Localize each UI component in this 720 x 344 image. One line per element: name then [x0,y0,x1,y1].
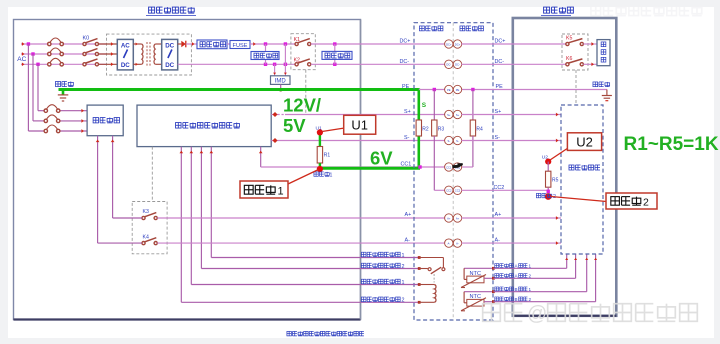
label lock position feedback 1 (dianzisuo weizhi fankui 1) [361,252,404,259]
svg-text:1: 1 [402,253,405,259]
svg-text:1: 1 [529,263,532,268]
node lock row 1 [418,256,421,259]
wire K4 left lead [98,242,142,244]
DC/DC converter box [162,39,178,70]
diode D1 [178,41,197,48]
vehicle connector dashed box [414,23,493,320]
wire to FUSE [227,43,230,45]
node U1 label [316,126,322,132]
wire DC- socket to K6 [462,63,568,65]
title: off-board charger [146,7,196,15]
switch K0 pole 2 [83,49,99,56]
svg-text:CC2: CC2 [446,189,452,193]
node DC- voltmeter tap [333,63,336,66]
wire PE socket to chassis [462,89,607,91]
wire DC+ bus FUSE to K1 [250,42,297,46]
svg-text:R2: R2 [422,127,429,133]
node NTC A pin1 [492,267,495,270]
svg-text:6V: 6V [370,148,393,169]
relay K2 label [294,57,300,63]
FUSE box [230,41,250,50]
wire S+ (12V/5V) controller to plug [271,112,445,117]
thermistor NTC B [461,292,493,311]
wire aux power outputs down [96,136,115,243]
transformer T1 [133,42,161,66]
dashed control link K1K2 to controller [305,70,307,113]
svg-text:2: 2 [529,273,532,278]
svg-text:DC: DC [121,62,130,69]
wires controller bottom drops [179,147,213,303]
svg-text:S+: S+ [404,109,411,115]
relay K1/K2 dashed box [291,34,315,70]
svg-text:B: B [515,287,518,292]
pin pair CC2 [445,186,462,194]
node U1 measurement dot [317,129,323,135]
node NTC B pin1 [492,290,495,293]
node CC1 green junction [418,165,421,168]
resistor R5 [546,171,559,187]
node PE R4 tap [471,88,474,91]
left pin labels DC+ DC- PE S+ S- CC1 A+ A- [400,39,412,244]
callout U2 box [550,133,602,160]
wire taps from AC to aux power [28,44,87,133]
relay K3/K4 dashed box [132,202,167,254]
pin pair PE [445,85,462,93]
svg-text:A-: A- [447,241,450,245]
AC source label [17,56,26,63]
node DC+ IMD tap [284,42,287,45]
label 5V green [283,115,306,136]
svg-text:S-: S- [447,139,450,143]
svg-text:AC: AC [17,56,26,63]
pin pair DC+ [445,40,462,48]
relay K6 label [566,56,572,62]
title: electric vehicle [541,7,573,15]
svg-text:A+: A+ [495,212,502,218]
wires K0 to AC/DC [99,42,118,66]
svg-text:A+: A+ [447,216,451,220]
pin pair A+ [445,214,462,222]
AC input arrows [22,42,25,66]
svg-text:R4: R4 [476,127,483,133]
svg-text:NTC: NTC [470,294,482,300]
pin pair A- [445,239,462,247]
svg-text:S-: S- [456,139,459,143]
node lock row 3 [418,283,421,286]
dashed control link K5K6 to vehicle controller [575,70,577,105]
wire green R1 to detection point 1 [319,163,321,168]
watermark zhihu bottom right [483,303,698,325]
svg-text:A-: A- [456,241,459,245]
svg-text:1: 1 [330,173,333,179]
label 6V green [370,148,393,169]
current measurement box (dianliu celiang) [197,40,227,49]
chassis ground label (cheshen di) [593,82,610,87]
wire K2 to plug DC- [311,63,445,65]
label temp resistor A pin1 (wenmin dianzu A yinjiao1) [495,263,532,268]
label lock drive power 2 [361,297,404,304]
label lock drive power 1 (dianzisuo qudong dianyuan 1) [361,279,404,286]
node AC L1 tap [27,42,30,45]
svg-text:1: 1 [278,186,284,198]
node DC+ bleeder tap [264,42,267,45]
fuse aux 2 [44,115,60,123]
faint watermark top right [591,6,702,16]
svg-text:DC: DC [165,43,174,50]
label 12V/ green [283,95,321,116]
wire K1 to voltage measure to plug DC+ [311,43,445,45]
svg-text:1: 1 [402,280,405,286]
wire A+ socket to vehicle controller [462,216,562,220]
IMD box [271,44,291,85]
node detection point 1 dot [317,166,323,172]
switch K0 label [83,36,90,42]
svg-text:R5: R5 [552,178,559,184]
svg-text:DC+: DC+ [455,42,461,46]
node DC+ voltmeter tap [333,42,336,45]
svg-text:DC-: DC- [455,63,460,67]
wire PE plug side [419,89,445,91]
wire green U1 to R1 [319,132,321,147]
relay K2 switch [295,59,311,66]
resistor R3 in plug PE to CC2 [432,90,445,191]
callout detection point 1 box [240,170,319,199]
wire K3 left lead [113,217,142,219]
svg-text:DC+: DC+ [400,39,411,45]
relay K5 label [566,36,572,42]
thermistor NTC A [461,268,493,287]
label S green [422,102,427,109]
svg-text:2: 2 [643,196,649,208]
wires NTC to vehicle controller [493,254,597,302]
svg-text:R1: R1 [324,153,331,159]
node U2 measurement dot [545,159,551,165]
wire R5 to detection point 2 [547,187,549,192]
node DC- bleeder tap [264,63,267,66]
relay K6 switch [566,59,584,66]
label temp resistor B pin1 [495,287,532,292]
svg-text:12V/: 12V/ [283,95,321,116]
svg-text:A-: A- [405,238,411,244]
svg-text:S+: S+ [447,113,451,117]
node detection point 2 dot [545,193,552,200]
bleeder resistor box (xiefang dianzu) [251,44,279,64]
resistor R4 in socket PE to CC1 [462,90,484,168]
label vehicle socket (cheliang chazuo) [460,26,483,31]
svg-text:PE: PE [456,88,460,92]
node AC L2 tap [31,52,34,55]
svg-text:FUSE: FUSE [233,43,248,49]
relay K4 switch [142,238,157,245]
svg-text:S: S [422,102,427,109]
switch K0 pole 3 [83,59,99,66]
battery pack box (dianchibao) [597,40,610,66]
fuse AC L3 [48,58,64,66]
charger controller box (feichezai chongdianji kongzhiqi) [137,105,271,147]
charger outer box [14,20,361,320]
switch K0 pole 1 [83,39,99,46]
relay K1 switch [295,39,311,46]
node NTC B pin2 [492,300,495,303]
label lock position feedback 2 [361,263,404,270]
protective earth label (baohu di) [55,81,73,86]
node U2 label [542,155,548,161]
svg-text:CC1: CC1 [401,162,412,168]
pin pair CC1 [445,163,462,171]
AC/DC converter box [117,39,133,70]
wire CC1 from controller bottom [259,147,445,167]
svg-text:NTC: NTC [470,271,482,277]
svg-text:K4: K4 [143,235,149,241]
svg-text:S+: S+ [456,113,460,117]
resistor R1 [317,147,330,164]
dashed link lock switch to solenoid [433,274,435,283]
svg-text:K6: K6 [566,56,572,62]
relay K4 label [143,235,149,241]
node AC L3 tap [36,63,39,66]
callout detection point 2 box [551,193,657,209]
label vehicle plug (cheliang chatou) [419,26,442,31]
svg-text:CC1: CC1 [446,165,452,169]
svg-text:A+: A+ [456,216,460,220]
resistor R2 in plug [416,120,429,136]
callout U1 box [322,115,376,134]
fuse AC L1 [48,38,64,46]
electronic lock switch in plug [419,258,445,274]
svg-text:U2: U2 [576,135,593,150]
wire CC2 socket to detection point 2 [462,189,548,191]
relay K1 label [294,37,300,43]
relay K5/K6 dashed box [562,34,588,70]
right pin labels DC+ DC- PE S+ S- CC2 A+ A- [494,39,506,244]
svg-text:PE: PE [447,88,451,92]
wire A+ line K3 to plug [157,217,445,219]
svg-text:B: B [515,297,518,302]
wire A- line K4 to plug [157,242,445,244]
chassis ground symbol [602,90,612,101]
svg-text:2: 2 [402,298,405,304]
svg-text:R3: R3 [438,127,445,133]
svg-text:A+: A+ [405,212,412,218]
svg-text:K3: K3 [143,209,149,215]
svg-text:DC-: DC- [400,59,410,65]
wires K5 K6 to battery pack [583,42,597,66]
PE green bus wire [59,88,419,91]
voltage measurement box (dianya celiang) [322,44,352,64]
label R1-R5=1K green [624,134,719,155]
svg-text:2: 2 [529,297,532,302]
node NTC A pin2 [492,277,495,280]
pin pair S- [445,136,462,144]
pin pair DC- [445,60,462,68]
wire green CC1 junction up to R2 [417,88,420,168]
svg-text:DC: DC [165,62,174,69]
dashed control link controller to K3K4 [151,147,153,202]
wire AC phase lines [21,44,107,64]
wire A- socket to vehicle controller [462,241,562,245]
wire DC+ socket to K5 [462,43,568,45]
svg-text:5V: 5V [283,115,306,136]
svg-text:K0: K0 [83,36,90,42]
pin pair S+ [445,110,462,118]
label detection point 2 (jiancedian2) [536,193,556,200]
protective earth ground symbol [58,90,69,102]
wire S- controller to plug [271,138,445,143]
wire U2 to R5 [547,162,549,172]
wire IMD to PE bus [279,84,283,91]
svg-text:@: @ [527,303,547,325]
electronic lock solenoid coil [419,285,436,303]
fuse AC L2 [48,48,64,56]
caption DC charging pile circuit diagram [287,331,364,335]
node DC- crossing mark [284,63,287,66]
vehicle controller dashed box (cheliang kongzhiqi) [561,105,603,254]
svg-text:S-: S- [404,135,410,141]
svg-text:U1: U1 [351,118,368,133]
svg-text:K5: K5 [566,36,572,42]
node DC- IMD tap [273,63,276,66]
fuse aux 3 [44,125,60,133]
wires electronic lock feedback/power staircase [181,258,419,303]
aux power box (fuzhu dianyuan) [87,105,123,136]
svg-text:DC+: DC+ [446,42,452,46]
wire S+ socket to vehicle controller [462,113,562,117]
svg-text:2: 2 [402,264,405,270]
wire DC- bus DC/DC to K2 [178,63,297,65]
label temp resistor A pin2 [495,273,532,278]
node CC2 junction [547,190,550,193]
relay K3 switch [142,213,157,220]
svg-text:CC2: CC2 [455,189,461,193]
svg-text:R1~R5=1K: R1~R5=1K [624,134,719,155]
wire S- socket to vehicle controller [462,139,562,143]
node lock row 4 [418,301,421,304]
mouse cursor at CC1 socket pin [452,163,463,168]
node lock row 2 [418,267,421,270]
wire green detection point 1 to CC1 junction [319,167,420,170]
converter dashed box [107,34,192,75]
node PE R3 tap [433,88,436,91]
relay K3 label [143,209,149,215]
svg-text:1: 1 [529,287,532,292]
svg-text:AC: AC [121,43,130,50]
EV outer box [513,18,617,316]
relay K5 switch [566,39,584,46]
svg-text:DC-: DC- [446,63,451,67]
label detection point 1 (jiancedian1) [314,172,333,179]
label temp resistor B pin2 [495,297,532,302]
svg-text:PE: PE [402,84,410,90]
svg-text:IMD: IMD [275,79,287,85]
fuse aux 1 [44,105,60,113]
